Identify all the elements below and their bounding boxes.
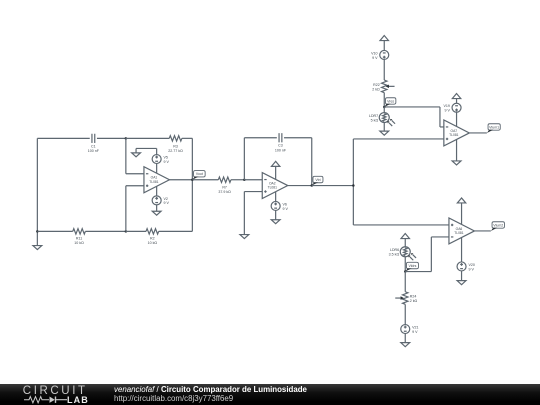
wire V10 to R22 xyxy=(383,59,385,80)
source V2 xyxy=(152,196,161,205)
svg-text:C1: C1 xyxy=(91,144,96,148)
wire top rail seg2 xyxy=(97,137,126,139)
photoresistor LDR6 xyxy=(400,247,410,257)
wire to OA6 non-inverting xyxy=(353,224,449,226)
svg-text:Vtri: Vtri xyxy=(315,178,320,182)
junction bottom-left xyxy=(36,230,39,233)
wire R22 to Vres node xyxy=(383,93,385,107)
svg-text:R22: R22 xyxy=(373,83,380,87)
wire left rail vertical xyxy=(36,138,38,231)
svg-text:Vldrs: Vldrs xyxy=(408,264,416,268)
source V19 xyxy=(452,103,461,112)
ground GND9 below V21 xyxy=(404,334,406,343)
wire OA1 V- pin xyxy=(156,186,158,196)
wire C3 feedback right xyxy=(284,137,312,139)
wire OA2 output xyxy=(288,185,312,187)
junction OA2 inverting node xyxy=(243,179,246,182)
junction Vres node xyxy=(383,106,386,109)
svg-text:Vout: Vout xyxy=(196,172,203,176)
source V20 xyxy=(457,262,466,271)
svg-text:37.9 kΩ: 37.9 kΩ xyxy=(218,190,231,194)
svg-text:TL081: TL081 xyxy=(449,133,459,137)
wire top rail seg3 xyxy=(126,137,169,139)
wire Vldrs to OA6 inverting xyxy=(405,271,431,273)
resistor R11 xyxy=(73,229,86,234)
svg-text:TL081: TL081 xyxy=(149,180,159,184)
junction right column xyxy=(352,184,355,187)
resistor R7 xyxy=(218,177,231,182)
svg-text:LDR6: LDR6 xyxy=(390,248,399,252)
wire OA2 V- pin xyxy=(275,192,277,202)
wire inverting input OA1 xyxy=(125,138,127,173)
wire OA7 output xyxy=(469,132,487,134)
power flag arrow above LDR6 xyxy=(401,234,409,239)
power flag arrow above V10 xyxy=(380,36,388,41)
wire to OA7 non-inverting xyxy=(353,138,444,140)
wire Vres to OA7 inverting xyxy=(384,106,440,108)
ground GND6 below LDR7 xyxy=(383,123,385,132)
wire Vtri to right column xyxy=(312,185,354,187)
wire OA1 output xyxy=(169,179,192,181)
wire LDR6 to Vldrs node xyxy=(404,257,406,272)
wire OA7 V- pin xyxy=(456,139,458,160)
resistor R3 xyxy=(169,136,182,141)
wire V5 to ground xyxy=(156,148,158,154)
source V5 xyxy=(152,155,161,164)
svg-text:100 nF: 100 nF xyxy=(275,148,287,152)
wire OA1 V+ pin xyxy=(156,164,158,174)
wire bottom rail seg1 xyxy=(37,230,72,232)
rheostat R22 xyxy=(382,80,387,93)
wire OA2 non-inverting to ground xyxy=(244,191,262,193)
logo squiggle resistor+diode xyxy=(24,397,49,403)
svg-text:V5: V5 xyxy=(164,156,168,160)
svg-text:TL081: TL081 xyxy=(454,231,464,235)
svg-text:9 V: 9 V xyxy=(412,330,418,334)
svg-text:22.77 kΩ: 22.77 kΩ xyxy=(168,149,183,153)
power flag arrow above V19 xyxy=(452,94,460,99)
svg-text:C3: C3 xyxy=(278,144,283,148)
svg-text:9 V: 9 V xyxy=(283,207,289,211)
svg-text:LDR7: LDR7 xyxy=(369,114,378,118)
wire R7 to node xyxy=(231,179,244,181)
op-amp OA7 xyxy=(444,120,470,146)
svg-text:R2: R2 xyxy=(150,237,155,241)
wire R24 to V21 xyxy=(404,304,406,324)
svg-text:100 nF: 100 nF xyxy=(88,149,100,153)
svg-text:TL081: TL081 xyxy=(268,186,278,190)
svg-text:9 V: 9 V xyxy=(164,160,170,164)
svg-text:2 kΩ: 2 kΩ xyxy=(372,87,380,91)
svg-text:V10: V10 xyxy=(371,51,377,55)
ground GND7 below OA7 xyxy=(452,161,461,165)
op-amp OA1 xyxy=(144,167,170,193)
wire OA1 out to R7 xyxy=(192,179,218,181)
svg-text:3.5 kΩ: 3.5 kΩ xyxy=(389,253,400,257)
junction node C1/Rf xyxy=(125,137,128,140)
wire non-inverting input OA1 xyxy=(125,186,127,232)
source V10 xyxy=(380,50,389,59)
junction Vldrs node xyxy=(404,270,407,273)
junction Vtri node xyxy=(311,184,314,187)
CircuitLab logo xyxy=(23,385,88,397)
svg-text:R24: R24 xyxy=(410,295,417,299)
wire Vldrs to R24 xyxy=(404,272,406,292)
svg-text:10 kΩ: 10 kΩ xyxy=(74,241,84,245)
flag Vlum2 xyxy=(492,222,504,228)
svg-text:V21: V21 xyxy=(412,326,418,330)
flag Vtri xyxy=(313,176,323,182)
junction OA1 output xyxy=(191,179,194,182)
svg-text:9 V: 9 V xyxy=(468,267,474,271)
rheostat R24 xyxy=(403,292,408,305)
svg-text:9 V: 9 V xyxy=(164,201,170,205)
wire right rail vertical xyxy=(191,138,193,231)
ground GND5 below V6 xyxy=(275,210,277,219)
wire V19 to OA7 V+ pin xyxy=(456,112,458,126)
power flag arrow above OA2 xyxy=(271,161,279,166)
svg-text:Vlum1: Vlum1 xyxy=(489,125,499,129)
svg-text:2 kΩ: 2 kΩ xyxy=(410,299,418,303)
wire OA6 V- pin xyxy=(461,238,463,262)
resistor R2 xyxy=(146,229,159,234)
ground GND2 above OA1 xyxy=(135,148,137,152)
svg-text:V6: V6 xyxy=(283,202,287,206)
op-amp OA2 xyxy=(262,173,288,199)
svg-text:R7: R7 xyxy=(222,185,227,189)
photoresistor LDR7 xyxy=(383,107,385,113)
svg-text:Vres: Vres xyxy=(387,99,394,103)
wire C3 feedback left xyxy=(243,138,245,180)
wire OA6 output xyxy=(474,230,490,232)
svg-text:10 kΩ: 10 kΩ xyxy=(148,241,158,245)
ground GND4 below OA2 input xyxy=(240,235,249,239)
capacitor C1 xyxy=(91,134,93,143)
ground GND1 bottom-left xyxy=(36,231,38,245)
ground GND3 below V2 xyxy=(156,205,158,211)
flag Vldrs xyxy=(406,262,418,268)
svg-text:9 V: 9 V xyxy=(444,109,450,113)
flag Vlum1 xyxy=(488,124,500,130)
flag Vout xyxy=(194,171,206,177)
svg-text:R11: R11 xyxy=(76,237,82,241)
wire bottom rail seg3 xyxy=(126,230,146,232)
svg-text:Vlum2: Vlum2 xyxy=(493,223,503,227)
wire right column vertical xyxy=(352,139,354,225)
svg-text:9 V: 9 V xyxy=(372,56,378,60)
svg-text:V2: V2 xyxy=(164,197,168,201)
wire bottom rail seg4 xyxy=(159,230,193,232)
wire top rail seg4 xyxy=(182,137,193,139)
svg-text:V20: V20 xyxy=(468,263,474,267)
svg-text:5 kΩ: 5 kΩ xyxy=(371,119,379,123)
wire top rail seg1 xyxy=(37,137,89,139)
ground GND8 below V20 xyxy=(461,271,463,281)
wire bottom rail seg2 xyxy=(85,230,126,232)
svg-text:V19: V19 xyxy=(443,104,449,108)
source V21 xyxy=(401,325,410,334)
flag Vres xyxy=(385,98,395,104)
source V6 xyxy=(271,201,280,210)
op-amp OA6 xyxy=(449,218,475,244)
capacitor C3 xyxy=(278,133,280,142)
junction node + divider xyxy=(125,230,128,233)
power flag arrow above OA6 xyxy=(457,198,465,203)
svg-text:R3: R3 xyxy=(173,144,178,148)
wire node to OA2 inverting input xyxy=(244,179,262,181)
